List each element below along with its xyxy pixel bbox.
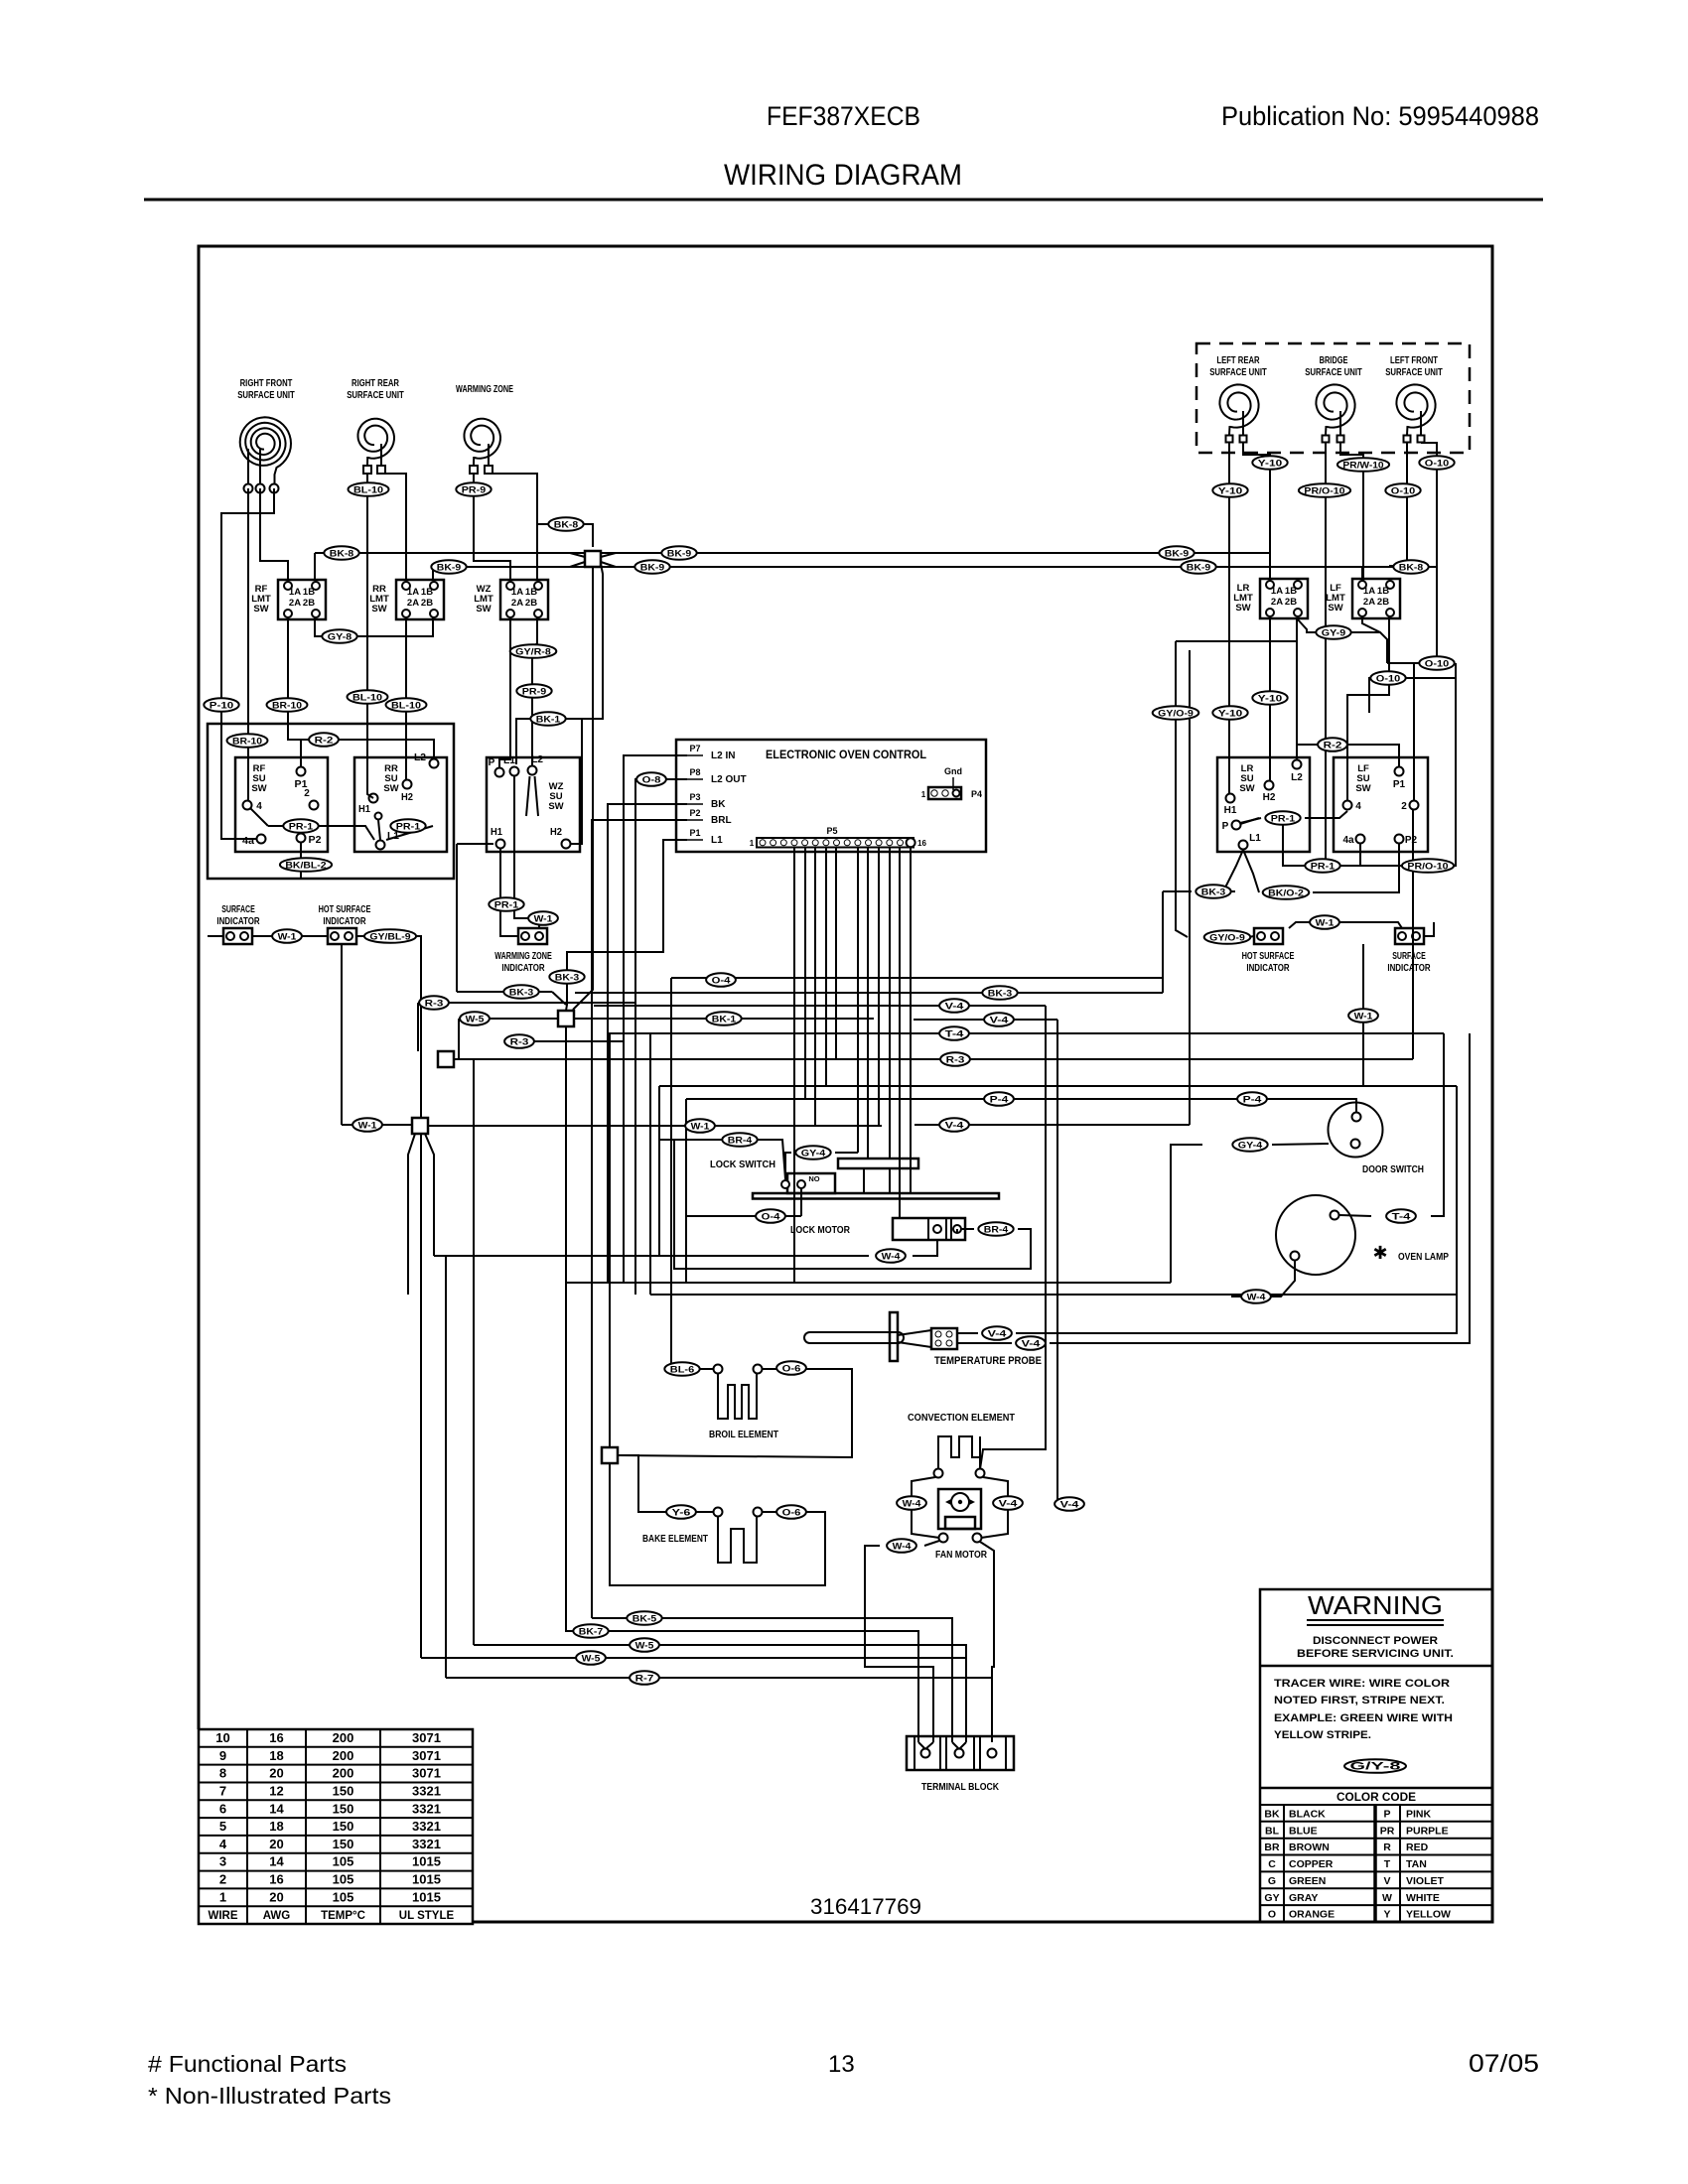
svg-text:BEFORE SERVICING UNIT.: BEFORE SERVICING UNIT. <box>1297 1648 1454 1660</box>
wire V-4 b riser <box>1057 1020 1062 1504</box>
oval label GY/R-8 <box>510 644 557 658</box>
oval label O-10 d <box>1370 671 1405 685</box>
oval label W-4 conv <box>897 1496 926 1510</box>
wire W-5 link <box>459 1018 558 1020</box>
svg-text:1: 1 <box>750 839 755 848</box>
wire SI to HSI link W-1 <box>252 935 328 937</box>
wire P5 drop 14 <box>899 847 901 1218</box>
svg-text:SW: SW <box>371 604 386 614</box>
svg-text:P3: P3 <box>689 792 700 802</box>
wire W-1 right link <box>1362 1016 1364 1086</box>
svg-text:14: 14 <box>269 1854 284 1869</box>
svg-text:16: 16 <box>917 839 926 848</box>
svg-text:P4: P4 <box>971 789 982 799</box>
wire P8 stub O-8 <box>666 778 687 780</box>
svg-text:WARMING ZONE: WARMING ZONE <box>456 384 513 395</box>
svg-text:4a: 4a <box>242 836 254 847</box>
svg-text:R-3: R-3 <box>946 1054 965 1065</box>
svg-text:1: 1 <box>219 1889 226 1904</box>
WZ SU SW lever <box>526 776 530 816</box>
svg-text:GY/O-9: GY/O-9 <box>1209 932 1245 943</box>
fan motor eye <box>945 1497 955 1507</box>
temperature probe rod <box>804 1332 904 1343</box>
svg-text:105: 105 <box>333 1872 354 1887</box>
svg-text:O-6: O-6 <box>782 1363 801 1374</box>
svg-text:BR: BR <box>1264 1842 1280 1853</box>
coil right front surface unit <box>240 417 291 468</box>
WZ SU SW terminal L1 <box>510 767 519 776</box>
wire RF terminal1 to sw 4 <box>247 488 249 801</box>
svg-text:W: W <box>1382 1892 1392 1904</box>
wire WZ LMT 2A chain to P <box>499 617 510 767</box>
oval label GY-4 door <box>1232 1138 1267 1152</box>
wire SI right stub <box>1424 922 1434 936</box>
wire PR-1 lr to LF4 <box>1305 811 1347 818</box>
oval label PR/W-10 <box>1337 458 1389 472</box>
WZ SU SW terminal P <box>495 768 504 777</box>
wire RR coil right to RR LMT 1A <box>381 474 406 581</box>
svg-text:W-5: W-5 <box>635 1640 655 1651</box>
svg-text:H2: H2 <box>1263 792 1276 803</box>
surface switch LF SU SW box <box>1334 757 1428 852</box>
WZ coil terminals <box>470 466 478 474</box>
oval label PR-9 lower <box>516 684 551 698</box>
wire LR LMT 2A to H2 <box>1269 616 1271 780</box>
oval label O-8 <box>636 772 666 786</box>
svg-text:105: 105 <box>333 1889 354 1904</box>
svg-text:150: 150 <box>333 1837 354 1851</box>
LF SU SW terminal P1 <box>1395 767 1404 776</box>
wire LR P lever link <box>1240 818 1261 823</box>
RF coil terminals <box>244 484 253 493</box>
wire W-4 lock link <box>913 1240 937 1256</box>
svg-text:P-10: P-10 <box>210 700 233 711</box>
oval label PR-9 upper <box>456 482 491 496</box>
svg-text:R-2: R-2 <box>315 735 334 746</box>
surface indicator left <box>223 928 252 944</box>
wire junction C down W-5 <box>473 1059 475 1645</box>
wire bus O-4 top <box>671 977 1163 979</box>
svg-text:L2 OUT: L2 OUT <box>711 774 747 785</box>
limit switch LR LMT SW <box>1260 579 1308 618</box>
svg-text:BL-10: BL-10 <box>352 692 382 703</box>
svg-text:LOCK MOTOR: LOCK MOTOR <box>790 1224 850 1236</box>
wire T-4 vertical <box>1431 1033 1444 1216</box>
oval label GY-9 <box>1316 625 1350 639</box>
oval label PR-1 lr <box>1265 811 1300 825</box>
svg-text:12: 12 <box>269 1784 283 1799</box>
RR SU SW terminal L2 <box>430 759 439 768</box>
svg-text:BK-8: BK-8 <box>330 548 353 559</box>
svg-text:CONVECTION ELEMENT: CONVECTION ELEMENT <box>908 1413 1015 1424</box>
wire bus BK-9 row2 left <box>433 566 585 568</box>
svg-text:10: 10 <box>215 1730 229 1745</box>
oval label BR-4 b <box>978 1222 1013 1236</box>
svg-text:PINK: PINK <box>1406 1809 1432 1821</box>
oval label GY-4 lock <box>795 1146 830 1160</box>
svg-text:6: 6 <box>219 1801 226 1816</box>
svg-text:2: 2 <box>219 1872 226 1887</box>
junction node B <box>558 1011 574 1026</box>
broil element terminals <box>714 1365 723 1374</box>
wire P5 drop 15 <box>910 847 912 1194</box>
svg-text:W-1: W-1 <box>278 931 298 942</box>
oval label W-5 b <box>630 1638 659 1652</box>
svg-text:Y-10: Y-10 <box>1218 485 1242 496</box>
oval label GY/O-9 upper <box>1153 706 1199 720</box>
svg-text:3071: 3071 <box>412 1730 441 1745</box>
wire RF coil leads <box>247 449 249 484</box>
wire LF left drop <box>1389 443 1407 566</box>
wire bus W-5 one <box>474 1645 966 1742</box>
svg-text:VIOLET: VIOLET <box>1406 1875 1445 1887</box>
wire fan left W-4 out <box>924 1541 939 1546</box>
wire LR left drop Y-10 <box>1228 443 1230 794</box>
svg-text:3321: 3321 <box>412 1784 441 1799</box>
RF SU SW terminal P1 <box>297 767 306 776</box>
coil right rear surface unit <box>358 419 395 459</box>
convection element <box>938 1436 980 1469</box>
svg-text:GY-9: GY-9 <box>1322 627 1345 638</box>
oval label Y-10 c <box>1212 706 1247 720</box>
svg-text:2B: 2B <box>1285 597 1297 608</box>
svg-text:18: 18 <box>269 1748 283 1763</box>
fan motor body <box>938 1489 981 1529</box>
lock switch terminals <box>781 1180 789 1188</box>
svg-text:L1: L1 <box>711 835 723 846</box>
svg-text:SW: SW <box>1239 783 1254 794</box>
svg-text:2A: 2A <box>289 598 301 609</box>
wire LR coil leads <box>1228 426 1231 435</box>
wire P2 stub riser <box>592 820 687 1618</box>
wire RF LMT 2A to P1 <box>288 617 301 766</box>
wire NO to O-4 <box>800 1188 802 1216</box>
svg-text:HOT SURFACE: HOT SURFACE <box>1242 951 1295 962</box>
wire bus T-4 <box>608 1032 1444 1034</box>
svg-text:W-1: W-1 <box>358 1120 378 1131</box>
oval label P-10 <box>204 698 238 712</box>
svg-text:O: O <box>1268 1909 1276 1921</box>
svg-text:O-10: O-10 <box>1376 673 1400 684</box>
oval label BR-4 a <box>722 1133 757 1147</box>
svg-text:3321: 3321 <box>412 1837 441 1851</box>
oval label BK-9 bus1b <box>1159 546 1194 560</box>
svg-text:W-5: W-5 <box>466 1014 486 1024</box>
svg-text:P2: P2 <box>689 808 700 818</box>
svg-text:BK-8: BK-8 <box>1399 562 1423 573</box>
wire O-10 row <box>1387 662 1437 664</box>
header rule <box>144 199 1543 202</box>
oval label Y-10 a <box>1252 456 1287 470</box>
oven lamp terminals <box>1331 1211 1339 1220</box>
oval label PR-1 lf <box>1305 859 1339 873</box>
limit switch LF LMT SW <box>1352 579 1400 618</box>
wire right riser x1198 <box>1189 650 1191 1125</box>
electronic oven control box <box>676 740 986 852</box>
svg-text:SURFACE UNIT: SURFACE UNIT <box>1209 367 1267 378</box>
wire bus BK-5 <box>592 1618 952 1742</box>
svg-text:SW: SW <box>1328 603 1342 614</box>
svg-text:BK-3: BK-3 <box>988 988 1012 999</box>
svg-text:BK-8: BK-8 <box>554 519 578 530</box>
svg-text:4: 4 <box>1355 801 1361 812</box>
limit switch RR LMT SW <box>396 580 444 619</box>
svg-text:* Non-Illustrated Parts: * Non-Illustrated Parts <box>148 2083 391 2109</box>
svg-text:INDICATOR: INDICATOR <box>1387 963 1431 974</box>
wire O-4 lock link <box>686 1215 801 1217</box>
LF SU SW terminal 2 <box>1410 801 1419 810</box>
svg-text:2A: 2A <box>1363 597 1375 608</box>
wire bus BK-8 BK-9 row1 left <box>315 552 585 554</box>
oval label BK-7 <box>573 1624 608 1638</box>
RR SU SW terminal L1 <box>376 841 385 850</box>
wire P5 drop 13 <box>889 847 891 1159</box>
terminal block body <box>907 1736 1014 1770</box>
wire P5 drop 7 <box>825 847 827 1086</box>
limit switch RF LMT SW <box>278 580 326 619</box>
oval label GY/O-9 lower <box>1204 930 1251 944</box>
svg-text:2B: 2B <box>421 598 433 609</box>
svg-text:1015: 1015 <box>412 1854 441 1869</box>
connector P4 <box>928 787 961 799</box>
wire terminal taper 1b <box>925 1742 933 1749</box>
svg-text:7: 7 <box>219 1784 226 1799</box>
wire WZ H1 to indicator <box>500 849 518 936</box>
svg-text:YELLOW: YELLOW <box>1406 1909 1451 1921</box>
svg-text:INDICATOR: INDICATOR <box>323 916 366 927</box>
oval label W-4 low <box>1241 1290 1271 1303</box>
svg-text:Publication No: 5995440988: Publication No: 5995440988 <box>1221 101 1539 131</box>
svg-text:2B: 2B <box>1377 597 1389 608</box>
oval label V-4 b <box>984 1013 1014 1026</box>
oval label O-6 broil <box>776 1361 806 1375</box>
oval label W-5 a <box>460 1012 490 1025</box>
junction node E <box>602 1447 618 1463</box>
oval label V-4 probe b <box>1016 1336 1046 1350</box>
wire fanout taper left <box>408 1134 415 1295</box>
WZ SU SW terminal L2 <box>528 766 537 775</box>
svg-text:2A: 2A <box>407 598 419 609</box>
wire bus R-3 main <box>454 1058 1413 1060</box>
svg-text:P-4: P-4 <box>1243 1094 1263 1105</box>
svg-text:2A: 2A <box>1271 597 1283 608</box>
svg-text:BK-5: BK-5 <box>633 1613 657 1624</box>
oval label O-6 bake <box>776 1505 806 1519</box>
svg-text:P: P <box>489 757 495 768</box>
surface switch RR SU SW box <box>354 757 447 852</box>
outer enclosure surface switches <box>208 724 454 879</box>
oval label BR-10 a <box>267 698 308 712</box>
svg-text:W-1: W-1 <box>1316 917 1336 928</box>
svg-text:W-4: W-4 <box>1247 1292 1267 1302</box>
svg-text:P7: P7 <box>689 744 700 753</box>
svg-text:C: C <box>1268 1858 1276 1870</box>
svg-text:DOOR SWITCH: DOOR SWITCH <box>1362 1164 1424 1175</box>
svg-text:20: 20 <box>269 1889 283 1904</box>
wire bus V-4 b <box>914 1019 1057 1021</box>
svg-text:✱: ✱ <box>1372 1243 1387 1263</box>
oval label BL-6 <box>664 1362 699 1376</box>
svg-text:P-4: P-4 <box>990 1094 1010 1105</box>
wire W-5 drop <box>458 1019 460 1059</box>
wire WZ coil left PR-9 to WZ LMT 1A <box>474 474 510 581</box>
svg-text:PR-1: PR-1 <box>289 821 314 832</box>
svg-text:T-4: T-4 <box>945 1028 965 1039</box>
svg-text:WIRING DIAGRAM: WIRING DIAGRAM <box>724 159 962 192</box>
svg-text:1: 1 <box>921 790 926 799</box>
wire GY-4 to door switch <box>1272 1144 1329 1145</box>
wire bake right loop <box>610 1463 825 1585</box>
svg-text:P: P <box>1383 1809 1390 1821</box>
wire PR-1 to L1 branch <box>386 826 433 840</box>
color code table <box>1283 1805 1285 1922</box>
svg-text:W-1: W-1 <box>691 1121 711 1132</box>
svg-text:BK-3: BK-3 <box>555 972 579 983</box>
lock motor body <box>893 1218 965 1240</box>
svg-text:SW: SW <box>253 604 268 614</box>
wire BR left drop PR/O-10 <box>1325 443 1327 866</box>
svg-text:LEFT FRONT: LEFT FRONT <box>1390 355 1438 366</box>
svg-text:L2: L2 <box>414 752 426 763</box>
oval label Y-10 d <box>1252 691 1287 705</box>
wire fanout taper right <box>425 1134 434 1256</box>
wire P7 stub riser <box>624 755 687 1283</box>
wire RF lever to PR-1 RR L1 <box>268 826 374 840</box>
lock bar <box>753 1193 999 1199</box>
wire V-4 a riser <box>980 1006 1046 1469</box>
svg-text:SW: SW <box>251 783 266 794</box>
door switch terminals <box>1352 1113 1361 1122</box>
svg-text:COPPER: COPPER <box>1289 1858 1334 1870</box>
svg-text:GY: GY <box>1264 1892 1279 1904</box>
wire LR L2 to 2B <box>1296 617 1298 759</box>
svg-text:4: 4 <box>219 1837 227 1851</box>
wire WZ H2 side <box>571 719 582 844</box>
svg-text:200: 200 <box>333 1766 354 1781</box>
svg-text:200: 200 <box>333 1730 354 1745</box>
wire BK-1 link <box>516 564 603 764</box>
svg-text:HOT SURFACE: HOT SURFACE <box>319 904 371 915</box>
svg-text:BRIDGE: BRIDGE <box>1320 355 1348 366</box>
svg-text:PR-9: PR-9 <box>522 686 546 697</box>
WZ SU SW terminal H2 <box>562 840 571 849</box>
svg-text:T: T <box>1384 1858 1391 1870</box>
svg-text:P8: P8 <box>689 767 700 777</box>
lock motor terminal boxes <box>927 1218 929 1240</box>
svg-text:BL-10: BL-10 <box>391 700 421 711</box>
wire P5 drop 12 <box>878 847 880 1125</box>
svg-text:2: 2 <box>304 788 310 799</box>
wire oven lamp W-4 <box>1231 1260 1295 1297</box>
svg-text:20: 20 <box>269 1837 283 1851</box>
wire terminal taper 2a <box>952 1742 959 1749</box>
oval label O-10 b <box>1385 483 1420 497</box>
svg-text:V-4: V-4 <box>1022 1338 1042 1349</box>
LR SU SW terminal L2 <box>1293 760 1302 769</box>
wire LF coil leads <box>1406 426 1409 435</box>
svg-text:1015: 1015 <box>412 1889 441 1904</box>
oval label Y-6 <box>666 1505 696 1519</box>
oval label BK-9 bus1a <box>661 546 696 560</box>
svg-text:TEMP°C: TEMP°C <box>321 1910 365 1922</box>
wire HSI GY/BL-9 out <box>356 936 421 1118</box>
oval label W-1 fan b <box>352 1118 382 1132</box>
oval label PR-1 wz <box>489 897 523 911</box>
wire BK-3 right link <box>1163 890 1192 892</box>
oval label W-4 lock <box>876 1249 906 1263</box>
oval label BK-9 bus2a <box>634 560 669 574</box>
oval label V-4 probe a <box>982 1326 1012 1340</box>
wire LR right drop Y-10 <box>1243 443 1270 581</box>
wire junction down <box>573 567 593 1010</box>
coil left front surface unit <box>1396 384 1435 427</box>
oval label BK-3 wzind a <box>549 970 584 984</box>
oval label T-4 <box>939 1026 969 1040</box>
wire RF terminal2 to RF LMT 1A <box>260 488 288 581</box>
oval label R-3 b <box>940 1052 970 1066</box>
fan motor bracket <box>945 1517 975 1529</box>
wire HSI right W-1 link <box>1289 922 1402 928</box>
svg-text:O-6: O-6 <box>782 1507 801 1518</box>
lock top plate <box>838 1159 918 1168</box>
wire GY-4 to switch <box>785 1153 791 1179</box>
temperature probe taper <box>898 1330 931 1335</box>
svg-text:PR/O-10: PR/O-10 <box>1407 861 1448 872</box>
oval label BL-10 b <box>348 690 388 704</box>
wire bus lower right a <box>567 1282 1171 1284</box>
svg-text:PR-1: PR-1 <box>396 821 421 832</box>
oval label BK-8 mid <box>548 517 583 531</box>
oval label R-3 a <box>504 1034 534 1048</box>
svg-text:H1: H1 <box>358 804 370 815</box>
broil element <box>718 1374 757 1419</box>
surface switch LR SU SW box <box>1217 757 1310 852</box>
svg-text:P2: P2 <box>309 835 322 846</box>
svg-text:BROWN: BROWN <box>1289 1842 1330 1853</box>
oven lamp circle <box>1276 1195 1355 1275</box>
svg-text:16: 16 <box>269 1872 283 1887</box>
RF SU SW lever <box>250 808 268 826</box>
svg-text:H1: H1 <box>1224 805 1237 816</box>
dashed enclosure left surface units <box>1196 343 1470 453</box>
svg-text:R: R <box>1383 1842 1391 1853</box>
svg-text:07/05: 07/05 <box>1469 2050 1539 2078</box>
oval label W-1 right a <box>1310 915 1339 929</box>
svg-text:BK-1: BK-1 <box>712 1014 737 1024</box>
wire WZ coil leads <box>473 457 475 466</box>
oval label W-4 fan <box>887 1539 916 1553</box>
wire P5 drop 5 <box>804 847 806 1099</box>
oval label BL-10 c <box>386 698 427 712</box>
oval label R-3 c <box>419 996 449 1010</box>
wire W-4 fan down <box>865 1546 933 1742</box>
svg-text:PR-1: PR-1 <box>1311 861 1336 872</box>
oval label BK-5 <box>627 1611 661 1625</box>
wire RR coil left to H1 <box>367 474 373 798</box>
svg-text:PR-1: PR-1 <box>1271 813 1296 824</box>
oval label V-4 fan right <box>1055 1497 1084 1511</box>
wire P1 stub riser <box>566 840 687 1011</box>
svg-text:V-4: V-4 <box>945 1001 965 1012</box>
wire bus W-1 fan <box>342 1124 412 1126</box>
wire P5 drop 10 <box>857 847 859 1153</box>
RR coil terminals <box>363 466 371 474</box>
oval label V-4 a <box>939 999 969 1013</box>
wire junction B down <box>566 1026 567 1631</box>
LF SU SW terminal 4a <box>1356 835 1365 844</box>
wire broil right loop <box>618 1369 852 1457</box>
wire LF right drop O-10 <box>1421 443 1437 663</box>
